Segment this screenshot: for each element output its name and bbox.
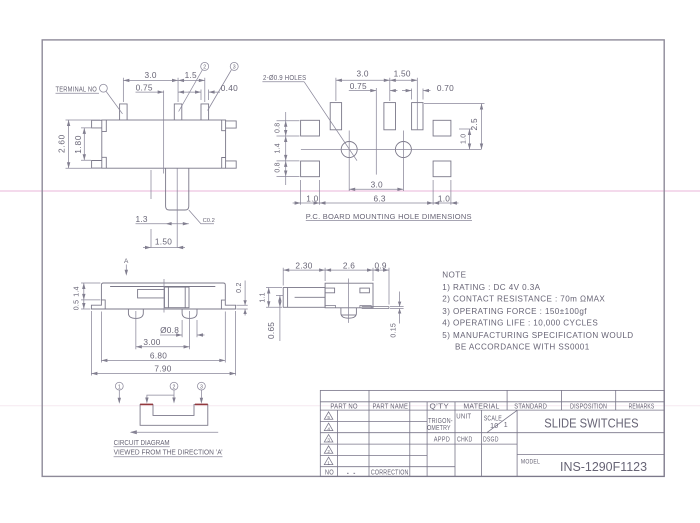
svg-text:2) CONTACT RESISTANCE : 70m ΩM: 2) CONTACT RESISTANCE : 70m ΩMAX xyxy=(442,295,605,304)
svg-text:1.4: 1.4 xyxy=(73,286,80,296)
svg-text:3: 3 xyxy=(327,438,330,443)
profile dim line 1.1 xyxy=(268,288,270,308)
dim line 7.90 xyxy=(91,373,235,375)
svg-text:CIRCUIT DIAGRAM: CIRCUIT DIAGRAM xyxy=(114,438,170,447)
side view terminal bump 2 xyxy=(182,309,197,318)
terminal 1 xyxy=(120,104,128,120)
dim line 3.00 xyxy=(136,346,190,348)
svg-text:1.3: 1.3 xyxy=(136,214,148,224)
bump centerline ext 2 xyxy=(189,311,191,349)
table vertical lines xyxy=(338,390,616,476)
leader C0.2 xyxy=(189,210,214,224)
underline pcb caption xyxy=(306,220,472,222)
svg-text:MATERIAL: MATERIAL xyxy=(463,404,499,411)
svg-text:1.0: 1.0 xyxy=(460,134,467,144)
arrows dim 1.3 xyxy=(166,222,189,225)
svg-text:DISPOSITION: DISPOSITION xyxy=(570,404,607,411)
svg-text:6.80: 6.80 xyxy=(150,351,167,361)
svg-text:UNIT: UNIT xyxy=(456,413,471,420)
pcb pad bottom-right xyxy=(433,161,451,177)
arrows dim 1.80 xyxy=(83,128,86,160)
pcb left dim line xyxy=(285,112,287,185)
leader circled 2 xyxy=(179,70,203,112)
svg-text:BE ACCORDANCE WITH SS0001: BE ACCORDANCE WITH SS0001 xyxy=(455,343,590,352)
circle balloon 2 xyxy=(201,62,209,70)
front view corner notch steps xyxy=(102,120,226,168)
scale diagonal xyxy=(487,410,517,432)
svg-text:3: 3 xyxy=(200,384,203,390)
svg-text:1.0: 1.0 xyxy=(306,194,318,204)
balloon circle 1 xyxy=(115,382,123,390)
profile dim line 0.15 xyxy=(399,292,401,324)
arrows pcb left dims xyxy=(284,121,287,177)
arrows pcb 0.75 xyxy=(370,89,396,92)
pcb hole 1 xyxy=(341,142,357,158)
profile terminal tail xyxy=(362,307,389,309)
pcb dim line 3.0 bottom xyxy=(349,188,403,190)
pcb dim line 0.70 xyxy=(402,90,431,92)
dim line 1.50 xyxy=(143,247,185,249)
pcb pad top-right xyxy=(433,120,451,136)
pcb dim line 6.3 / 1.0 bottom xyxy=(293,202,459,204)
svg-text:Ø0.8: Ø0.8 xyxy=(160,325,179,335)
ext lines 1.4/0.5 left xyxy=(81,283,100,309)
svg-text:VIEWED FROM THE DIRECTION ’A’: VIEWED FROM THE DIRECTION ’A’ xyxy=(114,450,223,457)
circle terminal no xyxy=(100,84,108,92)
svg-text:TERMINAL NO: TERMINAL NO xyxy=(56,84,98,93)
side view inner end steps xyxy=(101,300,225,309)
pcb dim line 3.0 / 1.50 top xyxy=(336,79,417,81)
pcb vertical centerline xyxy=(375,88,377,175)
dim leader 1.3 xyxy=(136,223,189,225)
svg-text:1.0: 1.0 xyxy=(438,194,450,204)
arrows 3.00 xyxy=(136,345,190,348)
svg-text:0.5: 0.5 xyxy=(73,300,80,310)
svg-text:0.65: 0.65 xyxy=(266,322,276,339)
front view right mounting tabs xyxy=(226,121,237,168)
dim line 0.40 xyxy=(188,91,220,93)
arrows dim 0.40 xyxy=(195,90,215,93)
arrows 1.1 xyxy=(267,288,270,308)
slide direction arrow line xyxy=(131,431,218,433)
profile body xyxy=(325,283,373,308)
svg-text:A: A xyxy=(124,258,129,265)
pcb ext lines bottom pads xyxy=(301,180,451,205)
profile notch top-right xyxy=(360,288,370,293)
contact bracket xyxy=(140,405,208,426)
ext lines 2.60 xyxy=(66,120,101,168)
dim line 2.60 xyxy=(68,120,70,168)
profile notch bottom-right xyxy=(360,306,371,308)
pcb dim line 2.5 xyxy=(481,104,483,150)
svg-text:0.2: 0.2 xyxy=(236,282,243,292)
arrows pcb 2.5 xyxy=(480,104,483,150)
profile dim line 0.65 xyxy=(279,295,281,341)
arrowheads to contacts xyxy=(118,398,203,404)
profile stem mid line xyxy=(295,296,326,298)
svg-text:STANDARD: STANDARD xyxy=(514,404,547,411)
wire from balloon 2 xyxy=(147,390,174,402)
svg-text:1: 1 xyxy=(327,460,330,465)
arrows dim 3.0/1.5 xyxy=(123,79,204,82)
profile stem end line xyxy=(287,288,289,308)
svg-text:APPD: APPD xyxy=(434,437,450,444)
side view slider knob xyxy=(165,287,190,308)
dim line 0.75 xyxy=(136,91,191,93)
pcb ext lines holes bottom xyxy=(349,131,403,192)
svg-text:4: 4 xyxy=(327,426,330,431)
balloon circle 2 xyxy=(170,382,178,390)
arrows 1.4/0.5 xyxy=(82,283,85,309)
svg-text:INS-1290F1123: INS-1290F1123 xyxy=(560,459,647,474)
svg-text:CHKD: CHKD xyxy=(457,437,473,444)
pcb right ext lines xyxy=(424,104,485,130)
arrowhead slide direction xyxy=(130,430,137,434)
ext lines 7.90 xyxy=(91,311,235,376)
direction A arrow line xyxy=(125,265,127,275)
arrows 7.90 xyxy=(91,372,235,375)
svg-text:1.4: 1.4 xyxy=(274,143,281,153)
arrows pcb 3.0 bottom xyxy=(349,188,403,191)
profile ext lines 1.1 xyxy=(266,288,282,308)
pcb ext lines top xyxy=(336,78,417,130)
arrow direction A xyxy=(125,270,128,276)
arrows dia 0.8 xyxy=(176,333,203,336)
arrows dim 2.60 xyxy=(67,120,70,168)
svg-text:SCALE: SCALE xyxy=(484,416,502,423)
revision triangle 3 xyxy=(324,435,333,443)
svg-text:2.5: 2.5 xyxy=(469,118,479,130)
svg-text:NOTE: NOTE xyxy=(442,271,466,280)
bump centerline ext 1 xyxy=(135,311,137,349)
arrows pcb 1.0 right xyxy=(468,129,471,150)
svg-text:2: 2 xyxy=(327,449,330,454)
svg-text:0.8: 0.8 xyxy=(274,123,281,133)
svg-text:4) OPERATING LIFE : 10,000 CYC: 4) OPERATING LIFE : 10,000 CYCLES xyxy=(442,319,598,328)
revision triangle 5 xyxy=(324,412,333,420)
underline terminal no xyxy=(56,92,100,94)
svg-text:2-Ø0.9 HOLES: 2-Ø0.9 HOLES xyxy=(263,73,306,82)
extension lines above terminals xyxy=(123,78,204,102)
ext lines 0.40 xyxy=(201,90,209,101)
pcb pad top-left xyxy=(301,120,320,136)
profile bump chord xyxy=(342,314,356,316)
profile notch bottom-left xyxy=(325,306,335,308)
arrows 0.9 xyxy=(373,268,389,271)
svg-text:1.50: 1.50 xyxy=(394,69,411,79)
knob inner lines xyxy=(168,287,185,308)
svg-text:0.70: 0.70 xyxy=(437,83,454,93)
wire from balloon 1 xyxy=(118,390,120,402)
svg-text:10: 10 xyxy=(490,423,498,430)
arrows 0.15 xyxy=(398,302,401,314)
arrows dim 0.75 xyxy=(158,90,184,93)
underline holes label xyxy=(262,81,304,83)
svg-text:0.8: 0.8 xyxy=(274,162,281,172)
svg-text:1.50: 1.50 xyxy=(155,237,172,247)
pcb left ext lines xyxy=(277,121,300,177)
svg-text:0.9: 0.9 xyxy=(374,260,386,270)
svg-text:C0.2: C0.2 xyxy=(203,218,215,224)
ext lines dia 0.8 xyxy=(182,320,197,337)
arrows dim 1.50 xyxy=(145,246,183,249)
pcb hole 2 xyxy=(395,142,411,158)
contact mark red right xyxy=(195,403,208,405)
table horizontal lines xyxy=(320,402,664,467)
arrows pcb 0.70 xyxy=(406,89,429,92)
dim line 3.0 / 1.5 xyxy=(123,79,204,81)
revision triangle 2 xyxy=(324,446,333,454)
front view body centerline xyxy=(163,91,165,174)
svg-text:NO: NO xyxy=(325,469,334,476)
svg-text:0.75: 0.75 xyxy=(136,82,153,92)
svg-text:SLIDE SWITCHES: SLIDE SWITCHES xyxy=(544,416,639,431)
svg-text:3.0: 3.0 xyxy=(356,69,368,79)
ext lines 6.80 xyxy=(101,312,225,363)
side view body outline with feet xyxy=(91,283,235,309)
profile stem xyxy=(283,288,325,308)
pcb horizontal centerline xyxy=(301,149,481,151)
svg-text:Q’TY: Q’TY xyxy=(430,404,450,411)
svg-text:3.0: 3.0 xyxy=(371,179,383,189)
front view body xyxy=(102,120,226,168)
svg-text:1: 1 xyxy=(504,422,508,429)
dots in no row xyxy=(347,473,349,474)
wire from balloon 3 xyxy=(200,390,202,402)
svg-text:5: 5 xyxy=(327,415,330,420)
scan artifact pink line xyxy=(0,190,700,192)
svg-text:1.1: 1.1 xyxy=(260,292,267,302)
pcb slot 1 xyxy=(330,103,341,130)
svg-text:PART NAME: PART NAME xyxy=(373,404,409,411)
circle balloon 3 xyxy=(230,62,238,70)
dim line 6.80 xyxy=(101,359,225,361)
profile ext lines top xyxy=(283,268,389,305)
pcb dim line 0.75 xyxy=(349,90,398,92)
svg-text:CORRECTION: CORRECTION xyxy=(371,469,409,476)
profile dim line 2.30/2.6/0.9 xyxy=(283,269,389,271)
svg-text:OMETRY: OMETRY xyxy=(427,425,451,432)
arrows pcb 3.0/1.50 top xyxy=(336,79,417,82)
svg-text:1.80: 1.80 xyxy=(73,135,83,154)
side view inner step xyxy=(138,289,165,298)
arrows pcb 6.3 xyxy=(320,201,434,204)
svg-text:2: 2 xyxy=(173,384,176,390)
svg-text:2.30: 2.30 xyxy=(295,260,312,270)
svg-text:3.0: 3.0 xyxy=(144,70,156,80)
svg-text:3: 3 xyxy=(233,65,236,71)
svg-text:PART NO: PART NO xyxy=(330,404,358,411)
underline circuit diagram xyxy=(114,446,170,448)
arrows pcb 1.0 bottom xyxy=(295,201,457,204)
pcb slot 2 xyxy=(384,103,396,130)
profile bump xyxy=(341,308,357,318)
profile ext line 0.65 xyxy=(276,294,284,296)
pcb ext lines 0.70 xyxy=(412,89,423,100)
pcb slot 3 xyxy=(412,103,423,130)
svg-text:7.90: 7.90 xyxy=(154,364,171,374)
pcb dim line 1.0 right xyxy=(469,129,471,150)
holes leader xyxy=(304,82,357,161)
arrows 0.65 xyxy=(278,295,281,307)
ext lines 0.2 right xyxy=(236,305,247,309)
svg-text:REMARKS: REMARKS xyxy=(629,404,655,411)
leader circled 3 xyxy=(208,70,232,111)
arrows 0.2 xyxy=(243,300,246,314)
dim leader dia 0.8 xyxy=(160,334,205,336)
svg-text:0.75: 0.75 xyxy=(350,81,367,91)
drawing border frame xyxy=(42,40,664,477)
svg-text:DSGD: DSGD xyxy=(483,437,499,444)
side view cover line xyxy=(110,286,215,288)
side view terminal bump 1 xyxy=(128,309,143,318)
terminal 2 xyxy=(174,104,182,120)
svg-text:0.15: 0.15 xyxy=(390,323,397,338)
svg-text:2.6: 2.6 xyxy=(343,260,355,270)
front view stem xyxy=(166,168,189,210)
svg-text:5) MANUFACTURING SPECIFICATION: 5) MANUFACTURING SPECIFICATION WOULD xyxy=(442,331,633,340)
svg-text:MODEL: MODEL xyxy=(521,458,540,465)
profile notch top-left xyxy=(325,288,335,293)
front view slider tick line xyxy=(150,170,152,248)
ext lines 1.80 xyxy=(81,128,91,160)
contact mark red left xyxy=(140,403,153,405)
pcb pad bottom-left xyxy=(301,161,320,177)
side view centerline xyxy=(163,279,165,313)
arrows 2.30 xyxy=(283,268,325,271)
svg-text:1.5: 1.5 xyxy=(185,70,197,80)
svg-text:0.40: 0.40 xyxy=(221,83,238,93)
svg-text:P.C. BOARD MOUNTING HOLE DIMEN: P.C. BOARD MOUNTING HOLE DIMENSIONS xyxy=(306,212,472,221)
svg-text:2.60: 2.60 xyxy=(56,134,66,153)
arrows 6.80 xyxy=(101,359,225,362)
underline viewed from xyxy=(114,456,223,458)
front view stem centerline extension xyxy=(176,169,178,248)
profile centerline xyxy=(348,279,350,323)
profile ext lines 0.15 xyxy=(390,307,404,309)
svg-text:1: 1 xyxy=(118,384,121,390)
svg-text:3.00: 3.00 xyxy=(143,337,160,347)
svg-text:1) RATING : DC 4V 0.3A: 1) RATING : DC 4V 0.3A xyxy=(442,283,540,292)
dim line 1.4/0.5 xyxy=(83,283,85,309)
dim line 1.80 xyxy=(83,128,85,160)
balloon circle 3 xyxy=(198,382,206,390)
terminal 3 xyxy=(201,104,209,120)
dim line 0.2 xyxy=(244,281,246,316)
leader terminal no xyxy=(106,92,122,114)
front view left mounting tabs xyxy=(92,120,102,168)
revision triangle 1 xyxy=(324,457,333,465)
table outer xyxy=(320,390,664,476)
arrows 2.6 xyxy=(325,268,373,271)
svg-text:3) OPERATING FORCE : 150±100gf: 3) OPERATING FORCE : 150±100gf xyxy=(442,307,587,316)
svg-text:2: 2 xyxy=(203,65,206,71)
scan artifact faint line xyxy=(0,405,700,407)
revision triangle 4 xyxy=(324,423,333,431)
svg-text:6.3: 6.3 xyxy=(373,194,385,204)
